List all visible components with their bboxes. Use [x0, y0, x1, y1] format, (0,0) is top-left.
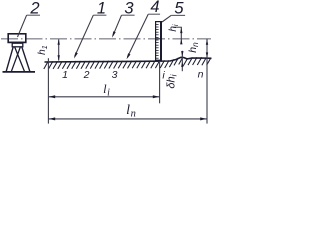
- label 5 leader: [162, 15, 171, 22]
- label 5 underline: [171, 14, 185, 16]
- ground terrain line: [45, 57, 212, 62]
- dimension delta-h_i vertical line: [181, 51, 183, 71]
- dimension h1 bottom arrow: [58, 55, 60, 61]
- svg-text:n: n: [198, 69, 204, 81]
- dimension l_i left arrow: [49, 95, 56, 98]
- label 1 underline: [93, 14, 106, 16]
- dimension h_i upper arrow: [180, 28, 182, 33]
- dimension h_i top tick: [173, 26, 182, 28]
- svg-text:2: 2: [83, 69, 90, 81]
- staff reading mark at sight line: [156, 38, 161, 40]
- label 1 leader arrowhead: [74, 52, 78, 58]
- tripod leg inner cross b: [11, 47, 20, 72]
- svg-text:3: 3: [112, 69, 118, 81]
- tripod leg inner cross a: [15, 47, 25, 72]
- dimension h_i lower arrow (below sight line pointing up): [180, 39, 182, 45]
- ground hatching: [44, 57, 211, 69]
- dimension delta-h_i upper arrow pointing down: [181, 51, 183, 57]
- staff right edge thick: [160, 22, 162, 61]
- dimension h1 top arrow: [58, 39, 60, 45]
- svg-text:hn: hn: [187, 42, 200, 53]
- label 1 leader: [75, 15, 94, 56]
- label 2 underline: [27, 14, 40, 16]
- svg-text:5: 5: [174, 0, 184, 17]
- svg-text:1: 1: [62, 69, 68, 81]
- dimension h_n bottom arrow: [206, 52, 208, 58]
- telescope body border redraw: [8, 34, 26, 43]
- tripod leg left outer: [6, 47, 13, 72]
- dimension h_i vertical line: [180, 27, 182, 44]
- svg-text:h1: h1: [37, 45, 49, 55]
- leveling staff (rod): [156, 22, 162, 61]
- svg-text:ln: ln: [126, 103, 136, 119]
- label 4 underline: [148, 13, 160, 15]
- svg-text:hi: hi: [168, 24, 180, 32]
- svg-text:δhi: δhi: [166, 73, 179, 88]
- tripod leg right outer: [22, 47, 30, 72]
- label 3 underline: [122, 14, 135, 16]
- staff graduation ticks: [156, 24, 159, 58]
- dimension delta-h_i lower arrow pointing up: [181, 61, 183, 67]
- label 2 leader: [18, 15, 27, 37]
- label 4 leader: [128, 14, 149, 57]
- level instrument telescope body: [8, 34, 26, 43]
- dimension l_n right arrow: [200, 117, 207, 120]
- dimension h_n top arrow: [206, 39, 208, 45]
- svg-text:li: li: [103, 82, 110, 98]
- dimension l_n line: [48, 118, 207, 120]
- label 3 leader arrowhead: [112, 31, 116, 38]
- dimension h_n line with extension to l_n: [206, 39, 208, 124]
- extension line at point 1: [47, 58, 49, 123]
- sight line (dash-dot horizontal line of sight): [1, 38, 211, 40]
- ground line under tripod: [3, 71, 36, 73]
- dimension l_i line: [48, 96, 159, 98]
- dimension l_n left arrow: [49, 117, 56, 120]
- extension line at point i: [159, 61, 161, 103]
- dimension l_i right arrow: [153, 95, 160, 98]
- label 3 leader: [113, 15, 122, 36]
- level instrument tribrach support: [12, 43, 23, 47]
- dimension h1 line: [58, 39, 60, 60]
- label 4 leader arrowhead: [127, 53, 131, 59]
